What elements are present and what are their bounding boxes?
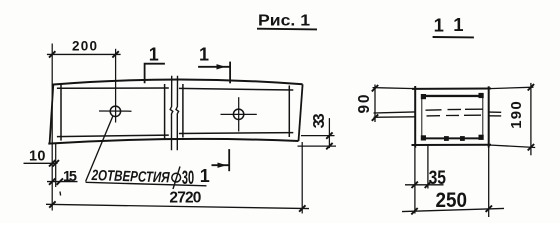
svg-text:190: 190	[508, 101, 525, 129]
svg-text:33: 33	[311, 113, 328, 128]
svg-text:1: 1	[199, 45, 209, 65]
svg-text:35: 35	[429, 168, 447, 189]
svg-text:10: 10	[29, 148, 46, 164]
svg-text:250: 250	[436, 189, 468, 212]
svg-text:2ОТВЕРСТИЯ: 2ОТВЕРСТИЯ	[91, 167, 171, 186]
svg-text:90: 90	[356, 95, 373, 114]
svg-text:1: 1	[453, 14, 463, 35]
svg-text:200: 200	[72, 38, 97, 53]
svg-text:30: 30	[182, 168, 194, 189]
svg-text:1: 1	[149, 45, 159, 65]
svg-text:Рис. 1: Рис. 1	[258, 12, 310, 29]
svg-text:1: 1	[434, 15, 444, 36]
svg-text:2720: 2720	[169, 190, 201, 207]
svg-text:1: 1	[200, 166, 210, 186]
svg-text:15: 15	[63, 169, 77, 185]
